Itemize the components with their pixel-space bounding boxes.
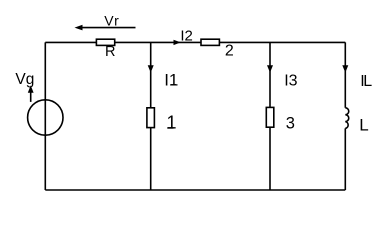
svg-text:3: 3 — [286, 115, 295, 133]
svg-text:I2: I2 — [180, 28, 193, 45]
svg-text:I3: I3 — [284, 72, 297, 89]
svg-text:1: 1 — [167, 113, 177, 133]
svg-text:I1: I1 — [164, 70, 178, 89]
svg-text:Vr: Vr — [104, 13, 119, 29]
svg-text:L: L — [359, 116, 368, 135]
svg-text:Vg: Vg — [15, 71, 34, 88]
svg-text:2: 2 — [225, 43, 234, 60]
svg-text:R: R — [105, 44, 115, 60]
svg-text:IL: IL — [360, 73, 372, 90]
